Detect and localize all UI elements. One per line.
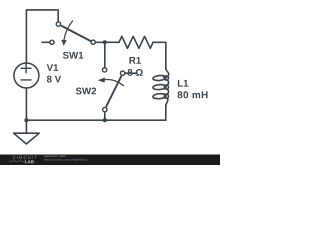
footer logo waveform xyxy=(9,160,25,162)
wire SW1 common to node A xyxy=(96,41,105,43)
label R1 xyxy=(129,57,140,64)
label L1 value xyxy=(178,91,208,98)
wire SW2 right stub xyxy=(126,72,137,74)
wire V1 top to SW1 xyxy=(26,10,58,63)
label L1 xyxy=(178,80,188,87)
footer title text xyxy=(44,155,65,157)
node rail junction under SW2 xyxy=(103,118,107,122)
node A junction xyxy=(103,40,107,44)
SW2 common terminal bottom xyxy=(103,107,107,111)
label SW2 xyxy=(76,88,96,95)
resistor R1 xyxy=(119,36,153,48)
wire V1 bottom xyxy=(25,89,27,121)
ground xyxy=(14,120,40,144)
SW2 arrow xyxy=(103,80,124,86)
SW1 arrow xyxy=(64,21,73,41)
wire L1 to bottom rail xyxy=(26,105,165,120)
label SW1 xyxy=(63,52,83,59)
SW2 throw terminal left xyxy=(102,68,106,72)
SW1 throw terminal top xyxy=(56,22,60,26)
SW2 throw terminal right xyxy=(120,71,124,75)
footer logo LAB xyxy=(25,160,34,163)
label R1 value xyxy=(128,69,143,76)
wire SW2 common to rail xyxy=(104,113,106,121)
wire node A to SW2 throw xyxy=(104,42,106,67)
SW2 arm xyxy=(106,76,121,107)
V1 minus sign xyxy=(21,79,31,81)
V1 plus sign xyxy=(21,64,31,80)
SW1 throw terminal left xyxy=(50,40,54,44)
footer url text xyxy=(44,158,87,161)
footer logo CIRCUIT xyxy=(13,156,37,159)
switch SW1 xyxy=(50,22,95,44)
SW1 common terminal xyxy=(91,40,95,44)
voltage source V1 xyxy=(14,63,39,88)
inductor L1 xyxy=(164,69,169,105)
node rail junction at ground xyxy=(24,118,28,122)
wire node A to R1 xyxy=(105,41,119,43)
label V1 value xyxy=(47,76,61,83)
wire R1 to L1 xyxy=(153,42,166,69)
SW1 arm xyxy=(61,26,91,42)
wire SW1 left stub xyxy=(42,41,49,43)
switch SW2 xyxy=(102,68,124,112)
label V1 xyxy=(47,64,59,71)
footer bar xyxy=(0,155,220,166)
